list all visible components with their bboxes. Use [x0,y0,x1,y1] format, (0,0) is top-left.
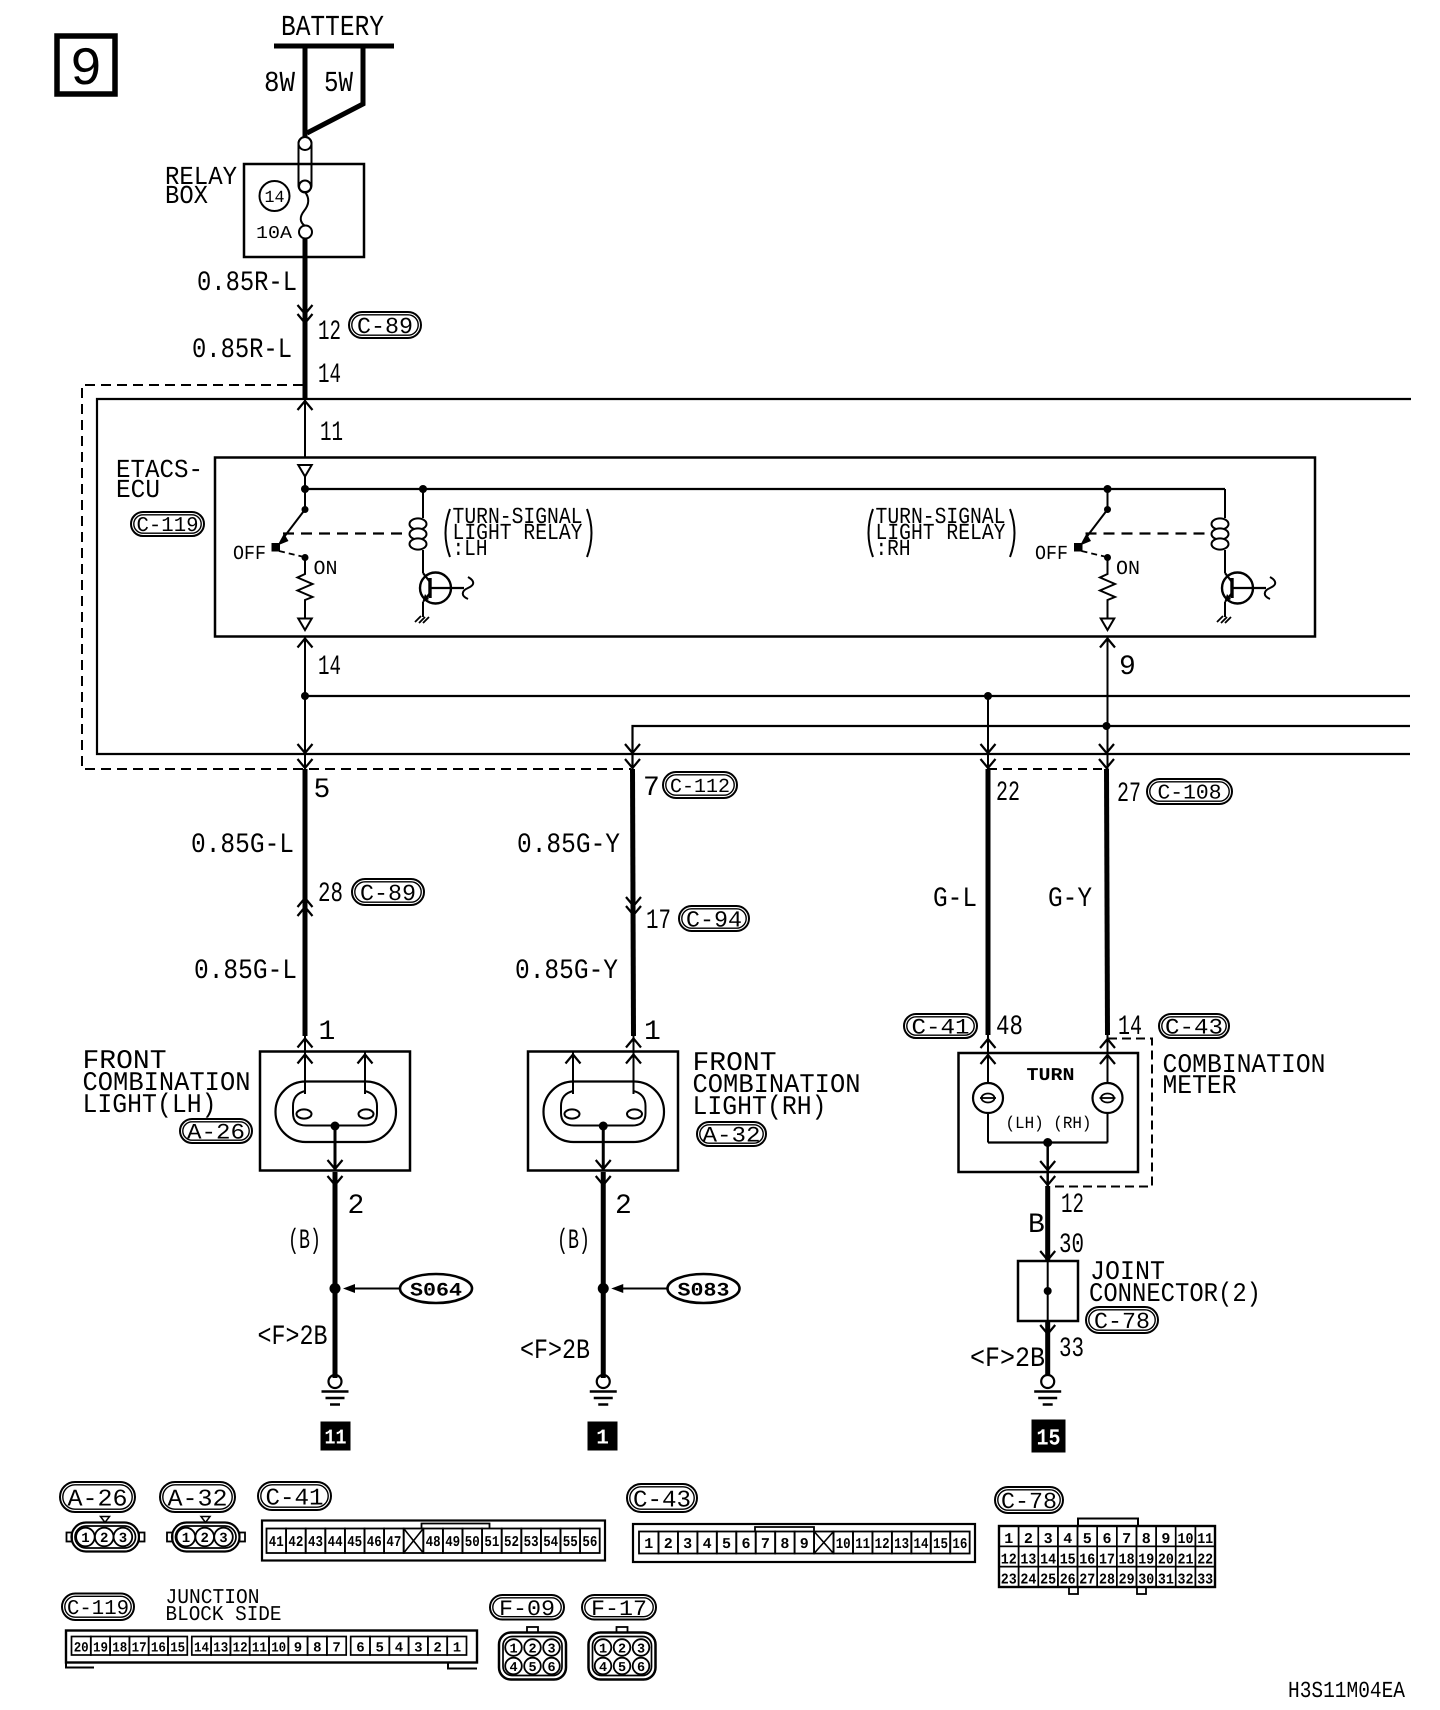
pin 33 label [1059,1334,1084,1365]
pin 14 label meter [1118,1012,1142,1043]
connector label C-89 upper [349,312,421,340]
label B [1028,1210,1045,1241]
OFF label [233,543,266,566]
svg-text:BATTERY: BATTERY [281,11,384,44]
combination meter dashed outline [1051,1039,1152,1187]
svg-text:43: 43 [308,1534,323,1551]
svg-text:C-89: C-89 [357,314,413,340]
svg-text:CONNECTOR(2): CONNECTOR(2) [1089,1280,1261,1310]
front combination light LH ground wire (B) [333,1172,338,1378]
svg-text:30: 30 [1059,1230,1084,1261]
svg-text:F-17: F-17 [591,1597,647,1622]
front combination light LH pin 2 label [348,1191,365,1222]
svg-text:13: 13 [213,1641,228,1657]
ECU pin 11 input triangle [298,465,312,489]
node supply-LH switch [301,485,309,493]
wire label 0.85R-L lower [192,335,292,366]
joint connector box [1018,1261,1078,1321]
connector C-94 pin 17 chevrons [626,897,641,915]
svg-text:10A: 10A [256,224,292,244]
svg-text:1: 1 [319,1017,336,1048]
pin 28 label [318,879,343,910]
svg-text:C-94: C-94 [686,907,742,933]
fusible link [299,137,312,193]
connector label C-94 [679,906,749,933]
svg-text:41: 41 [269,1534,284,1551]
svg-text:<F>2B: <F>2B [970,1344,1045,1375]
svg-text:9: 9 [800,1536,809,1553]
svg-text:5: 5 [314,775,331,806]
svg-text:2: 2 [348,1191,365,1222]
svg-text:20: 20 [74,1641,89,1657]
connector label C-78 at joint [1086,1307,1158,1335]
svg-text:3: 3 [1044,1531,1053,1548]
connector label A-32 bottom [160,1482,235,1513]
svg-text:9: 9 [294,1641,302,1657]
svg-text:48: 48 [996,1012,1023,1043]
svg-text:0.85G-L: 0.85G-L [191,830,294,861]
svg-text:51: 51 [484,1534,499,1551]
connector label C-43 bottom [627,1484,697,1514]
meter pin 12 label [1061,1190,1084,1221]
switch dashed link to ON [1082,551,1105,557]
svg-text:BLOCK SIDE: BLOCK SIDE [166,1604,282,1627]
svg-text:11: 11 [1197,1531,1213,1548]
wire 0.85G-L thick upper [303,769,308,1036]
connector C-119 pin layout [66,1631,477,1669]
svg-text:C-43: C-43 [1165,1016,1223,1041]
label G-Y [1048,884,1092,915]
svg-text:G-Y: G-Y [1048,884,1092,915]
label 0.85G-L lower [194,956,297,987]
relay coil [1212,489,1229,573]
svg-text:12: 12 [875,1536,890,1553]
fuse 10A label [256,224,292,244]
wire label 0.85R-L upper [197,268,297,299]
pin 1 label RH lamp [644,1017,661,1048]
svg-text:5W: 5W [324,67,353,100]
wire B meter to joint connector [1045,1186,1050,1261]
base squiggle [1265,577,1276,599]
pin 12 label [318,317,341,348]
svg-text:ECU: ECU [116,475,160,505]
wire 8W from battery [303,44,308,138]
svg-text:11: 11 [252,1641,267,1657]
svg-text:0.85R-L: 0.85R-L [197,268,297,299]
connector label A-26 at lamp [180,1119,252,1146]
svg-text:S064: S064 [410,1280,462,1302]
junction block solid outline [97,399,1411,754]
svg-text:13: 13 [1020,1551,1036,1568]
ECU output pin triangle [298,619,312,631]
svg-text:12: 12 [1061,1190,1084,1221]
pin 7 label [643,773,660,804]
relay box outline [244,164,364,257]
svg-text:23: 23 [1001,1572,1017,1589]
pin 11 chevron into ECU [298,401,313,410]
front combination light RH second wire chevron [566,1055,581,1064]
wire 5 junction block exit chevrons [298,744,313,768]
connector C-43 pin layout [633,1524,975,1562]
label (LH) (RH) [1006,1115,1092,1134]
svg-text:2: 2 [664,1536,673,1553]
joint connector exit chevron [1040,1325,1055,1334]
svg-text:15: 15 [1037,1426,1061,1452]
svg-text:OFF: OFF [1035,543,1068,566]
switch to coil dashed line [283,532,406,534]
wire 7 junction block exit chevrons [625,744,640,768]
front combination light RH bulb outline [544,1082,665,1143]
node pin14 tee [301,692,309,700]
page number 9 box [57,36,115,101]
svg-text:ON: ON [1116,558,1140,581]
transistor internal ground [415,616,429,623]
front combination light LH box [260,1052,410,1171]
node bus-22 tee [984,692,992,700]
svg-text:3: 3 [637,1643,645,1658]
svg-text:3: 3 [414,1641,422,1657]
front combination light LH wire entry chevrons [298,1039,313,1064]
OFF label [1035,543,1068,566]
svg-text:27: 27 [1117,779,1141,810]
svg-text:2: 2 [528,1643,536,1658]
svg-text:11: 11 [320,418,343,449]
switch ON contact [1104,554,1111,561]
fuse number circle 14 [260,181,290,211]
svg-text:10: 10 [271,1641,286,1657]
svg-text:C-119: C-119 [67,1598,129,1621]
svg-text:16: 16 [151,1641,166,1657]
svg-text:5: 5 [375,1641,383,1657]
front combination light LH internal wires [305,1036,365,1094]
svg-text:21: 21 [1178,1551,1194,1568]
svg-text:12: 12 [318,317,341,348]
svg-text:0.85G-Y: 0.85G-Y [515,956,618,987]
svg-text:32: 32 [1178,1572,1194,1589]
svg-text:TURN: TURN [1027,1066,1075,1086]
svg-text:BOX: BOX [165,181,208,211]
front combination light LH ground node [331,1122,340,1131]
connector label C-108 [1147,779,1232,806]
svg-text:16: 16 [1079,1551,1095,1568]
svg-text:G-L: G-L [933,884,977,915]
connector label C-41 bottom [258,1482,331,1512]
meter wire 14 chevrons [1100,1039,1115,1064]
svg-text:33: 33 [1059,1334,1084,1365]
svg-text:20: 20 [1158,1551,1174,1568]
front combination light LH ground symbol [322,1375,349,1405]
svg-text:<F>2B: <F>2B [520,1336,590,1367]
front combination light LH bulb socket [293,1091,377,1126]
F-09 connector view [499,1627,566,1680]
wire G-Y thick to meter [1107,769,1108,1035]
front combination light RH ground wire (B) [601,1172,606,1378]
svg-text:(B): (B) [288,1226,321,1257]
svg-text:2: 2 [200,1531,208,1547]
svg-text:1: 1 [644,1017,661,1048]
svg-text:42: 42 [288,1534,303,1551]
svg-text:METER: METER [1163,1072,1237,1102]
svg-text:1: 1 [81,1531,89,1547]
svg-text:4: 4 [703,1536,712,1553]
ON label [1116,558,1140,581]
svg-text:17: 17 [132,1641,147,1657]
connector label C-119 bottom [62,1594,134,1622]
svg-text:9: 9 [70,40,102,101]
TURN label [1027,1066,1075,1086]
svg-text:56: 56 [582,1534,597,1551]
splice S064 [330,1274,473,1303]
pin 22 label [996,778,1020,809]
battery bus bar [274,44,394,49]
svg-text:1: 1 [644,1536,653,1553]
svg-text:6: 6 [741,1536,750,1553]
switch to coil dashed line [1086,532,1209,534]
svg-text:3: 3 [683,1536,692,1553]
ECU pin 14 chevron [298,639,313,648]
svg-text:17: 17 [646,906,671,937]
front combination light LH filament contacts [297,1109,374,1118]
connector label C-43 at meter [1159,1014,1229,1041]
svg-text:14: 14 [194,1641,209,1657]
svg-text:7: 7 [1122,1531,1131,1548]
svg-text:H3S11M04EA: H3S11M04EA [1288,1678,1405,1704]
wire pin 9 down [1107,637,1109,770]
ECU pin 9 label [1119,652,1136,683]
svg-text:6: 6 [356,1641,364,1657]
meter internal wires [988,1035,1108,1143]
meter ground label F 2B [970,1344,1045,1375]
svg-text:48: 48 [426,1534,441,1551]
svg-text:9: 9 [1161,1531,1170,1548]
front combination light LH bulb outline [276,1082,397,1143]
switch OFF contact [272,544,280,552]
wire pin 14 down [304,637,306,770]
svg-text:19: 19 [93,1641,108,1657]
front combination light LH caption [83,1047,251,1121]
pin 5 label [314,775,331,806]
driver transistor [1222,573,1266,618]
turn-signal light relay LH caption [446,504,592,562]
front combination light RH bulb socket [561,1091,646,1126]
wire to meter ground [1045,1321,1050,1375]
svg-text:C-41: C-41 [912,1016,970,1041]
front combination light LH label F 2B [258,1322,328,1353]
svg-text:33: 33 [1197,1572,1213,1589]
svg-text:14: 14 [914,1536,929,1553]
svg-text:47: 47 [386,1534,401,1551]
svg-text:S083: S083 [678,1280,730,1302]
pin 27 label [1117,779,1141,810]
meter ground node [1043,1138,1052,1147]
svg-text:C-108: C-108 [1158,783,1222,806]
front combination light RH box [528,1052,678,1171]
front combination light RH ground wire inside [596,1126,611,1185]
svg-text:F-09: F-09 [499,1597,555,1622]
svg-text:A-26: A-26 [68,1486,128,1513]
connector label F-09 bottom [490,1595,564,1622]
svg-text:(B): (B) [557,1226,590,1257]
svg-text:50: 50 [465,1534,480,1551]
svg-text:10: 10 [836,1536,851,1553]
F-17 connector view [589,1627,656,1680]
combination meter box [959,1053,1139,1172]
svg-text:27: 27 [1079,1572,1095,1589]
meter ground symbol [1034,1375,1061,1405]
svg-text:8: 8 [1142,1531,1151,1548]
wire 22 vertical in junction block [987,696,989,769]
connector C-41 pin layout [262,1521,605,1561]
svg-text:C-112: C-112 [670,776,730,799]
wire 0.85G-Y thick [633,769,634,1036]
svg-text:17: 17 [1099,1551,1115,1568]
wire 22 junction block exit chevrons [981,744,996,768]
connector C-78 pin layout [999,1519,1215,1595]
connector label F-17 bottom [582,1595,656,1622]
driver transistor [420,573,464,618]
switch arm [278,510,306,546]
svg-text:(LH) (RH): (LH) (RH) [1006,1115,1092,1134]
node supply-LH coil [419,485,427,493]
svg-text:12: 12 [233,1641,248,1657]
svg-text:45: 45 [347,1534,362,1551]
svg-text:8W: 8W [264,67,296,100]
ECU pin 14 label [318,652,341,683]
svg-text:7: 7 [761,1536,770,1553]
junction block side caption [166,1587,282,1627]
svg-text:18: 18 [1119,1551,1135,1568]
turn indicator bulb LH [973,1083,1003,1113]
svg-text:ON: ON [314,558,338,581]
front combination light RH wire entry chevrons [626,1039,641,1064]
svg-text:14: 14 [1040,1551,1056,1568]
relay coil [410,489,427,573]
connector label A-26 bottom [60,1482,135,1513]
wire 5W from battery [307,44,363,133]
connector label C-41 at meter [904,1014,977,1041]
svg-text:54: 54 [543,1534,558,1551]
svg-text:8: 8 [313,1641,321,1657]
meter wire 48 chevrons [981,1039,996,1064]
front combination light RH caption [693,1049,861,1123]
svg-text:A-32: A-32 [703,1124,761,1149]
label 0.85G-L upper [191,830,294,861]
label 0.85G-Y lower [515,956,618,987]
pin 17 label [646,906,671,937]
front combination light RH pin 2 label [615,1191,632,1222]
svg-text:0.85R-L: 0.85R-L [192,335,292,366]
label 8W [264,67,296,100]
svg-text:14: 14 [318,652,341,683]
svg-text:13: 13 [894,1536,909,1553]
front combination light RH internal wires [573,1036,634,1094]
svg-text:LIGHT(RH): LIGHT(RH) [693,1093,827,1123]
svg-text:5: 5 [528,1661,536,1676]
svg-text:31: 31 [1158,1572,1174,1589]
joint connector node [1044,1261,1052,1321]
battery label [281,11,384,44]
splice S083 [598,1274,740,1303]
connector label C-112 [663,772,737,799]
label G-L [933,884,977,915]
svg-text:11: 11 [325,1428,347,1451]
ETACS-ECU label [116,455,203,505]
relay box label [165,162,237,211]
joint connector caption [1089,1258,1261,1310]
wire 27 junction block exit chevrons [1099,744,1114,768]
front combination light RH ground tag 1 [588,1422,617,1451]
svg-text:28: 28 [318,879,343,910]
svg-text:1: 1 [1004,1531,1013,1548]
svg-text:14: 14 [265,189,285,208]
svg-text:3: 3 [547,1643,555,1658]
switch arm [1080,510,1108,546]
svg-text:15: 15 [933,1536,948,1553]
wire pin 11 to ETACS-ECU [304,399,306,457]
resistor [298,558,313,619]
svg-text:2: 2 [1024,1531,1033,1548]
svg-text:C-43: C-43 [633,1487,691,1514]
transistor internal ground [1217,616,1231,623]
svg-text:1: 1 [182,1531,190,1547]
svg-text:C-78: C-78 [1094,1309,1150,1335]
turn indicator bulb RH [1093,1083,1123,1113]
svg-text:5: 5 [722,1536,731,1553]
front combination light RH label F 2B [520,1336,590,1367]
svg-text:28: 28 [1099,1572,1115,1589]
svg-text:15: 15 [1060,1551,1076,1568]
svg-text:3: 3 [219,1531,227,1547]
label 0.85G-Y upper [517,830,620,861]
ETACS-ECU box [215,458,1315,637]
svg-text::LH: :LH [453,536,488,562]
switch dashed link to ON [279,551,302,557]
front combination light RH filament contacts [565,1109,643,1118]
connector C-89 pin 28 chevrons [298,898,313,916]
svg-text:1: 1 [509,1643,517,1658]
svg-text:C-78: C-78 [1001,1489,1057,1515]
switch OFF contact [1075,544,1083,552]
ON label [314,558,338,581]
bus wire RH to meter pin 27 [633,726,1411,769]
svg-text:3: 3 [119,1531,127,1547]
joint connector entry chevron [1040,1251,1055,1260]
svg-text:12: 12 [1001,1551,1017,1568]
svg-text:5: 5 [618,1661,626,1676]
switch pivot wire [302,489,309,513]
wire 0.85R-L from relay box [303,239,308,400]
svg-text:55: 55 [563,1534,578,1551]
svg-text:A-26: A-26 [187,1121,245,1146]
pin 1 label LH lamp [319,1017,336,1048]
svg-text:4: 4 [509,1661,517,1676]
svg-text:8: 8 [780,1536,789,1553]
svg-text:<F>2B: <F>2B [258,1322,328,1353]
pin 11 label [320,418,343,449]
svg-text:14: 14 [318,360,341,391]
svg-text:2: 2 [100,1531,108,1547]
svg-text:9: 9 [1119,652,1136,683]
svg-text:49: 49 [445,1534,460,1551]
svg-text:LIGHT(LH): LIGHT(LH) [83,1091,217,1121]
svg-text:1: 1 [453,1641,461,1657]
bus wire LH to meter pin 22 [305,695,1410,697]
connector label C-119 [131,512,204,538]
pin 14 label junction block in [318,360,341,391]
svg-text:52: 52 [504,1534,519,1551]
node supply-RH switch [1104,485,1112,493]
svg-text:0.85G-L: 0.85G-L [194,956,297,987]
